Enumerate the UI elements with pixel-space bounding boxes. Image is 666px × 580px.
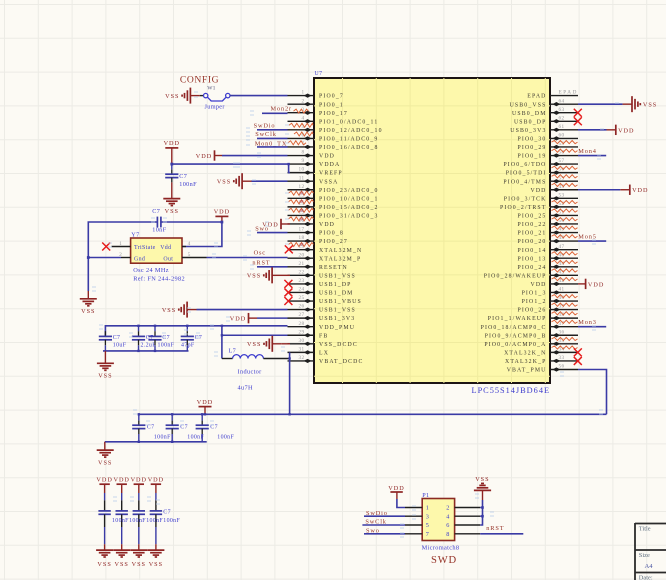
ground VSS (decoupling col 3) bbox=[130, 550, 147, 568]
svg-text:PIO0_28/WAKEUP: PIO0_28/WAKEUP bbox=[484, 273, 547, 279]
wire osc cap left to VSS drop bbox=[88, 222, 157, 299]
wire USB1_3V3 net bbox=[257, 317, 288, 319]
resistor (series) below right pin row 38 bbox=[552, 320, 578, 323]
pin 48 PIO0_20 (right) bbox=[518, 235, 579, 245]
node nRST bbox=[252, 260, 270, 267]
wire + power VDD (pin 42) bbox=[578, 279, 604, 289]
wire osc cap right / VDD to Y7 pin 4 bbox=[161, 222, 222, 247]
svg-text:USB1_DP: USB1_DP bbox=[319, 282, 352, 288]
svg-text:28: 28 bbox=[299, 321, 305, 327]
junction FB/inductor bbox=[221, 325, 223, 337]
svg-text:17: 17 bbox=[299, 227, 305, 233]
pin 29 FB (left) bbox=[288, 329, 329, 339]
svg-text:12: 12 bbox=[299, 184, 305, 190]
node SwDio bbox=[254, 123, 276, 130]
node Mon3 bbox=[578, 319, 596, 326]
svg-text:100nF: 100nF bbox=[179, 181, 197, 188]
svg-text:VDD: VDD bbox=[632, 187, 648, 194]
svg-text:PIO0_21: PIO0_21 bbox=[518, 231, 547, 237]
wire VSSA net bbox=[252, 180, 288, 182]
svg-text:Mon2r: Mon2r bbox=[271, 106, 292, 113]
svg-text:8: 8 bbox=[302, 150, 305, 156]
svg-text:VDD: VDD bbox=[230, 316, 246, 323]
resistor (series) Mon2r bbox=[294, 109, 309, 113]
pin 30 VSS_DCDC (left) bbox=[288, 338, 358, 348]
resistor (series) below right pin row 41 bbox=[552, 295, 578, 298]
resistor (series) below right pin row 44 bbox=[552, 269, 578, 272]
svg-text:63: 63 bbox=[559, 107, 565, 113]
pin 5 PIO0_12/ADC0_10 (left) bbox=[288, 124, 383, 134]
svg-text:PIO0_25: PIO0_25 bbox=[518, 214, 547, 220]
pin 63 USB0_DM (right) bbox=[512, 107, 578, 117]
svg-text:27: 27 bbox=[299, 312, 305, 318]
pin 43 PIO0_28/WAKEUP (right) bbox=[484, 269, 578, 279]
power VSS (USB1_VSS pin 26) bbox=[162, 302, 197, 318]
svg-text:VDD: VDD bbox=[131, 476, 147, 483]
resistor (series) Mon0_TX bbox=[288, 141, 306, 145]
pin 62 USB0_DP (right) bbox=[514, 115, 578, 125]
svg-text:A4: A4 bbox=[645, 563, 654, 570]
pin 64 USB0_VSS (right) bbox=[510, 98, 578, 108]
pin 34 XTAL32K_N (right) bbox=[504, 346, 578, 356]
pin 57 PIO0_6/TDO (right) bbox=[503, 158, 578, 168]
pin 14 PIO0_15/ADC0_2 (left) bbox=[288, 201, 379, 211]
svg-text:22: 22 bbox=[299, 269, 305, 275]
no-connect X USB0_DP bbox=[574, 117, 582, 125]
capacitor C7 100nF (decoupling col 3) bbox=[133, 493, 145, 550]
title block bbox=[635, 523, 666, 580]
svg-text:VSS: VSS bbox=[162, 307, 176, 314]
junction osc VDD bbox=[221, 221, 224, 224]
pin 13 PIO0_10/ADC0_1 (left) bbox=[288, 192, 379, 202]
svg-text:L7: L7 bbox=[229, 348, 237, 355]
svg-text:53: 53 bbox=[559, 192, 565, 198]
capacitor C7 100nF (VDD rail) bbox=[148, 326, 174, 351]
svg-text:VSS: VSS bbox=[247, 273, 261, 280]
svg-text:Osc: Osc bbox=[254, 250, 266, 257]
svg-text:100nF: 100nF bbox=[217, 435, 234, 441]
pin 42 VDD (right) bbox=[530, 278, 578, 288]
svg-text:VDD: VDD bbox=[530, 282, 546, 288]
node Swo (SWD) bbox=[366, 527, 380, 534]
resistor (series) below right pin row 60 bbox=[552, 140, 578, 143]
svg-text:1: 1 bbox=[426, 505, 429, 512]
svg-text:TriState: TriState bbox=[134, 245, 156, 251]
svg-text:XTAL32K_P: XTAL32K_P bbox=[505, 359, 546, 365]
pin 31 LX (left) bbox=[288, 346, 330, 356]
value 100nF (decoupling) bbox=[146, 518, 163, 524]
wire VBAT_PMU loop to bottom rail bbox=[578, 369, 607, 414]
svg-text:PIO1_2: PIO1_2 bbox=[522, 299, 547, 305]
svg-text:VDD: VDD bbox=[197, 399, 213, 406]
svg-text:EPAD: EPAD bbox=[559, 90, 578, 96]
svg-text:2.2uF: 2.2uF bbox=[141, 343, 157, 349]
pin 45 VDD (right) bbox=[530, 184, 578, 194]
svg-text:100nF: 100nF bbox=[112, 518, 129, 524]
svg-text:PIO0_6/TDO: PIO0_6/TDO bbox=[503, 162, 546, 168]
svg-text:Osc 24 MHz: Osc 24 MHz bbox=[133, 267, 169, 274]
power VSS (USB1_VSS pin 22) bbox=[247, 267, 290, 283]
value 4u7H bbox=[238, 385, 253, 392]
svg-text:USB0_DM: USB0_DM bbox=[512, 111, 546, 117]
node SwClk bbox=[255, 131, 276, 138]
value Osc 24 MHz bbox=[133, 267, 169, 274]
svg-text:VDD: VDD bbox=[588, 281, 604, 288]
svg-text:100nF: 100nF bbox=[154, 435, 171, 441]
wire rail to inductor / FB tap bbox=[221, 326, 223, 359]
no-connect X USB1_DM bbox=[284, 288, 292, 296]
svg-text:XTAL32M_N: XTAL32M_N bbox=[319, 248, 362, 254]
svg-text:VSS: VSS bbox=[217, 179, 231, 186]
svg-text:PIO0_16/ADC0_8: PIO0_16/ADC0_8 bbox=[319, 145, 379, 151]
svg-text:VSS: VSS bbox=[643, 102, 657, 109]
wire Osc net (Y7 out to XTAL32M_P) bbox=[207, 257, 288, 259]
svg-text:4: 4 bbox=[188, 241, 191, 247]
svg-text:41: 41 bbox=[559, 287, 565, 293]
IC U7 LPC55S14JBD64E body bbox=[314, 71, 550, 395]
svg-text:SwDio: SwDio bbox=[254, 123, 276, 130]
svg-text:C7: C7 bbox=[162, 335, 170, 341]
svg-text:VSSA: VSSA bbox=[319, 179, 338, 185]
svg-text:VSS: VSS bbox=[81, 308, 95, 315]
capacitor C7 100nF (bottom) bbox=[196, 414, 235, 442]
inductor L7 bbox=[222, 348, 290, 359]
wire VDD rail (pin 28 VDD_PMU) bbox=[105, 326, 287, 337]
svg-text:25: 25 bbox=[299, 295, 305, 301]
svg-text:VSS: VSS bbox=[98, 373, 112, 380]
svg-text:36: 36 bbox=[559, 329, 565, 335]
wire SwClk (SWD) bbox=[362, 524, 405, 526]
svg-text:20: 20 bbox=[299, 252, 305, 258]
svg-text:P1: P1 bbox=[422, 492, 429, 499]
capacitor C7 100nF (bottom) bbox=[166, 414, 205, 442]
pin 18 PIO0_27 (left) bbox=[288, 235, 349, 245]
capacitor C7 100nF (decoupling col 1) bbox=[98, 493, 110, 550]
power VDD (osc) bbox=[214, 209, 230, 223]
svg-text:U7: U7 bbox=[315, 71, 323, 77]
pin 27 USB1_3V3 (left) bbox=[288, 312, 356, 322]
junction SWD VSS taps bbox=[481, 506, 484, 517]
svg-text:57: 57 bbox=[559, 158, 565, 164]
svg-text:Title: Title bbox=[639, 526, 651, 533]
wire 3-cap bottoms bbox=[105, 442, 207, 450]
pin 60 PIO0_30 (right) bbox=[518, 132, 579, 142]
pin 51 PIO0_25 (right) bbox=[518, 210, 579, 220]
capacitor C7 47pF (VDD rail) bbox=[181, 326, 202, 351]
resistor (series) below right pin row 53 bbox=[552, 200, 578, 203]
pin 7 PIO0_16/ADC0_8 (left) bbox=[288, 141, 379, 151]
svg-text:RESETN: RESETN bbox=[319, 265, 348, 271]
pin 28 VDD_PMU (left) bbox=[288, 321, 356, 331]
power VSS (VSSA) bbox=[217, 173, 252, 189]
svg-text:CONFIG: CONFIG bbox=[180, 75, 219, 86]
svg-text:Mon4: Mon4 bbox=[578, 148, 596, 155]
resistor (series) SwDio bbox=[289, 123, 313, 127]
svg-text:VSS: VSS bbox=[247, 341, 261, 348]
svg-text:SWD: SWD bbox=[431, 555, 457, 566]
wire VDDA net bbox=[172, 164, 290, 173]
ground VSS (VDDA cap) bbox=[163, 199, 180, 215]
svg-text:31: 31 bbox=[299, 346, 305, 352]
svg-text:LPC55S14JBD64E: LPC55S14JBD64E bbox=[472, 386, 551, 395]
pin 44 PIO0_24 (right) bbox=[518, 261, 579, 271]
node Osc bbox=[254, 250, 266, 257]
svg-text:47: 47 bbox=[559, 244, 565, 250]
svg-text:56: 56 bbox=[559, 364, 565, 370]
power VDD (pin 61) bbox=[616, 125, 635, 135]
svg-text:100nF: 100nF bbox=[158, 343, 175, 349]
value Ref: FN 244-2982 bbox=[133, 276, 185, 283]
svg-text:4: 4 bbox=[446, 513, 449, 520]
capacitor C7 100nF (bottom) bbox=[132, 414, 171, 442]
svg-text:PIO0_10/ADC0_1: PIO0_10/ADC0_1 bbox=[319, 196, 379, 202]
wire Mon0_TX net bbox=[257, 146, 288, 148]
wire Swo (SWD) bbox=[364, 533, 405, 535]
node Mon0_TX bbox=[255, 140, 288, 147]
svg-text:VSS: VSS bbox=[115, 561, 129, 568]
svg-text:USB1_VSS: USB1_VSS bbox=[319, 308, 356, 314]
wire VDD to P1 pin 1 bbox=[397, 499, 405, 508]
node Mon4 bbox=[578, 148, 596, 155]
value Micromatch8 bbox=[422, 544, 460, 551]
svg-text:5: 5 bbox=[426, 522, 429, 529]
pin 36 PIO0_9/ACMP0_B (right) bbox=[485, 329, 578, 339]
wire LX net vertical bbox=[289, 352, 291, 414]
svg-text:2: 2 bbox=[446, 505, 449, 512]
resistor (series) below right pin row 43 bbox=[552, 277, 578, 280]
jumper W1 bbox=[200, 86, 230, 111]
svg-text:XTAL32M_P: XTAL32M_P bbox=[319, 256, 361, 262]
pin 10 VREFP (left) bbox=[288, 167, 343, 177]
wire cap bottoms rail bbox=[103, 351, 189, 363]
svg-text:PIO1_1/WAKEUP: PIO1_1/WAKEUP bbox=[488, 316, 547, 322]
pin 6 PIO0_11/ADC0_9 (left) bbox=[288, 132, 379, 142]
svg-text:VDD: VDD bbox=[618, 127, 634, 134]
power VDD (decoupling col 1) bbox=[96, 476, 112, 493]
node nRST (SWD) bbox=[486, 525, 504, 532]
svg-text:PIO0_30: PIO0_30 bbox=[518, 136, 547, 142]
svg-text:PIO0_17: PIO0_17 bbox=[319, 111, 348, 117]
svg-text:Date:: Date: bbox=[639, 575, 653, 580]
svg-text:VDD_PMU: VDD_PMU bbox=[319, 325, 355, 331]
no-connect X USB1_VBUS bbox=[284, 297, 292, 305]
resistor (series) below right pin row 57 bbox=[552, 166, 578, 169]
wire nRST (SWD) bbox=[480, 533, 523, 535]
svg-text:Ref: FN 244-2982: Ref: FN 244-2982 bbox=[133, 276, 185, 283]
svg-text:0R: 0R bbox=[300, 200, 305, 204]
svg-text:11: 11 bbox=[299, 175, 305, 181]
svg-text:VDD: VDD bbox=[530, 188, 546, 194]
pin 50 PIO0_22 (right) bbox=[518, 218, 579, 228]
pin 1 PIO0_7 (left) bbox=[288, 90, 344, 100]
svg-text:0R: 0R bbox=[300, 243, 305, 247]
resistor (series) below left pin 14 bbox=[289, 208, 314, 213]
svg-text:Vdd: Vdd bbox=[160, 245, 171, 251]
pin 16 VDD (left) bbox=[288, 218, 336, 228]
wire bottom VDD rail bbox=[138, 413, 607, 415]
power VDD (pin 8) bbox=[196, 150, 222, 160]
svg-text:100nF: 100nF bbox=[146, 518, 163, 524]
svg-text:4: 4 bbox=[302, 115, 305, 121]
resistor (series) below left pin 13 bbox=[289, 200, 314, 205]
svg-text:PIO0_11/ADC0_9: PIO0_11/ADC0_9 bbox=[319, 136, 378, 142]
no-connect X USB1_DP bbox=[284, 280, 292, 288]
svg-text:2: 2 bbox=[302, 98, 305, 104]
svg-text:9: 9 bbox=[302, 158, 305, 164]
svg-text:1: 1 bbox=[302, 90, 305, 96]
no-connect X Y7 pin 1 bbox=[102, 243, 110, 251]
svg-text:VSS: VSS bbox=[165, 93, 179, 100]
ground VSS (decoupling col 2) bbox=[113, 550, 130, 568]
node Mon2r bbox=[271, 106, 292, 113]
svg-text:VSS: VSS bbox=[149, 561, 163, 568]
svg-text:PIO1_0/ADC0_11: PIO1_0/ADC0_11 bbox=[319, 119, 378, 125]
pin 23 USB1_DP (left) bbox=[288, 278, 352, 288]
pin 58 PIO0_19 (right) bbox=[518, 150, 579, 160]
svg-text:USB1_VSS: USB1_VSS bbox=[319, 273, 356, 279]
value 100nF (decoupling) bbox=[163, 518, 180, 524]
pin 4 PIO1_0/ADC0_11 (left) bbox=[288, 115, 379, 125]
node SWD title bbox=[431, 555, 457, 566]
resistor (series) below right pin row 55 bbox=[552, 183, 578, 186]
pin 61 USB0_3V3 (right) bbox=[510, 124, 578, 134]
svg-text:C7: C7 bbox=[179, 173, 187, 180]
resistor (series) below right pin row 50 bbox=[552, 226, 578, 229]
svg-text:USB0_VSS: USB0_VSS bbox=[510, 102, 547, 108]
ground VSS (SWD, pointing up) bbox=[474, 476, 491, 500]
svg-text:21: 21 bbox=[299, 261, 305, 267]
svg-text:100nF: 100nF bbox=[163, 518, 180, 524]
pin 55 PIO0_4/TMS (right) bbox=[503, 175, 578, 185]
resistor (series) below left pin 15 bbox=[289, 217, 314, 222]
pin 19 XTAL32M_N (left) bbox=[288, 244, 363, 254]
capacitor C7 2.2uF (VDD rail) bbox=[132, 326, 156, 351]
power VDD (bottom rail) bbox=[197, 399, 213, 415]
svg-text:PIO0_13: PIO0_13 bbox=[518, 256, 547, 262]
svg-text:nRST: nRST bbox=[486, 525, 504, 532]
wire Swo net bbox=[257, 232, 288, 234]
power VDD (VDDA) bbox=[164, 140, 180, 164]
svg-text:24: 24 bbox=[299, 287, 305, 293]
svg-text:PIO0_0/ACMP0_A: PIO0_0/ACMP0_A bbox=[484, 342, 546, 348]
svg-text:PIO0_20: PIO0_20 bbox=[518, 239, 547, 245]
power VDD (decoupling col 4) bbox=[148, 476, 164, 493]
node Swo bbox=[255, 225, 269, 232]
wire PIO0_19 (Mon4 net) bbox=[578, 155, 606, 157]
wire SwClk net bbox=[257, 137, 288, 139]
svg-text:VDD: VDD bbox=[96, 476, 112, 483]
svg-text:Micromatch8: Micromatch8 bbox=[422, 544, 460, 551]
svg-text:18: 18 bbox=[299, 235, 305, 241]
junction Y7 gnd bbox=[87, 256, 90, 259]
capacitor C7 100nF (decoupling col 4) bbox=[150, 493, 162, 550]
svg-text:Mon3: Mon3 bbox=[578, 319, 596, 326]
svg-text:0R: 0R bbox=[300, 209, 305, 213]
svg-text:VREFP: VREFP bbox=[319, 171, 343, 177]
svg-text:SwClk: SwClk bbox=[255, 131, 276, 138]
wire USB1_VSS net bbox=[197, 309, 288, 311]
node Mon5 bbox=[578, 234, 596, 241]
pin 52 PIO0_2/TRST (right) bbox=[500, 201, 578, 211]
svg-text:VDD: VDD bbox=[214, 209, 230, 216]
pin 8 VDD (left) bbox=[288, 150, 336, 160]
svg-text:33: 33 bbox=[559, 355, 565, 361]
pin 17 PIO0_8 (left) bbox=[288, 227, 344, 237]
svg-text:PIO0_29: PIO0_29 bbox=[518, 145, 547, 151]
resistor (series) below right pin row 52 bbox=[552, 209, 578, 212]
svg-text:PIO0_7: PIO0_7 bbox=[319, 94, 344, 100]
svg-text:60: 60 bbox=[559, 132, 565, 138]
svg-text:USB1_DM: USB1_DM bbox=[319, 291, 353, 297]
svg-text:30: 30 bbox=[299, 338, 305, 344]
svg-text:PIO0_15/ADC0_2: PIO0_15/ADC0_2 bbox=[319, 205, 379, 211]
pin 2 PIO0_1 (left) bbox=[288, 98, 344, 108]
svg-text:PIO0_4/TMS: PIO0_4/TMS bbox=[503, 179, 546, 185]
ground VSS (cap bank) bbox=[97, 363, 114, 379]
svg-text:VDDA: VDDA bbox=[319, 162, 340, 168]
oscillator Y7 bbox=[112, 232, 207, 264]
junction 3-cap taps bbox=[138, 413, 204, 443]
wire USB0_VSS to VSS bbox=[578, 103, 623, 105]
pin 56 VBAT_PMU (right) bbox=[507, 364, 578, 374]
resistor (series) below right pin row 49 bbox=[552, 235, 578, 238]
pin 11 VSSA (left) bbox=[288, 175, 339, 185]
pin 20 XTAL32M_P (left) bbox=[288, 252, 362, 262]
resistor (series) below right pin row 59 bbox=[552, 149, 578, 152]
capacitor C7 10nF (osc) bbox=[152, 208, 166, 234]
value C7 (decoupling) bbox=[163, 510, 171, 516]
pin 39 PIO0_26 (right) bbox=[518, 304, 579, 314]
svg-text:Inductor: Inductor bbox=[238, 369, 263, 376]
svg-text:PIO0_23/ADC0_0: PIO0_23/ADC0_0 bbox=[319, 188, 379, 194]
wire jumper to PIO0_7 bbox=[230, 95, 288, 97]
junction rail tap bbox=[186, 325, 188, 327]
resistor (series) below left pin 12 bbox=[289, 191, 314, 196]
pin 41 PIO1_3 (right) bbox=[522, 287, 578, 297]
svg-text:8: 8 bbox=[446, 531, 449, 538]
pin 24 USB1_DM (left) bbox=[288, 287, 354, 297]
svg-text:0R: 0R bbox=[300, 192, 305, 196]
wire SwDio net bbox=[257, 129, 288, 131]
svg-text:PIO0_22: PIO0_22 bbox=[518, 222, 547, 228]
wire Y7 gnd bbox=[88, 257, 121, 259]
pin 35 PIO0_0/ACMP0_A (right) bbox=[484, 338, 578, 348]
wire VDD to pin 8 bbox=[222, 155, 288, 157]
node SwClk (SWD) bbox=[365, 519, 386, 526]
no-connect X XTAL32M_N bbox=[285, 245, 293, 253]
svg-text:VDD: VDD bbox=[164, 140, 180, 147]
svg-text:PIO0_8: PIO0_8 bbox=[319, 231, 344, 237]
svg-text:USB0_3V3: USB0_3V3 bbox=[510, 128, 546, 134]
svg-text:C7: C7 bbox=[113, 335, 121, 341]
svg-text:Out: Out bbox=[163, 256, 173, 262]
svg-text:Y7: Y7 bbox=[131, 232, 139, 239]
wire USB0_3V3 to VDD bbox=[578, 129, 616, 131]
power VDD (USB1_3V3) bbox=[230, 313, 257, 323]
svg-text:C7: C7 bbox=[195, 335, 203, 341]
pin 47 PIO0_14 (right) bbox=[518, 244, 579, 254]
svg-text:PIO0_2/TRST: PIO0_2/TRST bbox=[500, 205, 546, 211]
pin 56 PIO0_5/TDI (right) bbox=[506, 167, 578, 177]
power VDD (decoupling col 3) bbox=[131, 476, 147, 493]
svg-text:10: 10 bbox=[299, 167, 305, 173]
junction VDDA bbox=[170, 163, 289, 166]
node CONFIG title bbox=[180, 75, 219, 86]
svg-text:VDD: VDD bbox=[148, 476, 164, 483]
resistor (series) below left pin 18 bbox=[289, 243, 314, 248]
svg-text:PIO0_27: PIO0_27 bbox=[319, 239, 348, 245]
svg-text:VDD: VDD bbox=[196, 153, 212, 160]
